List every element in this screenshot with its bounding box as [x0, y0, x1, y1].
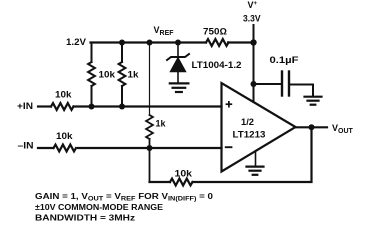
wire R3 bottom lead: [91, 86, 93, 107]
label plus input sign (drawn): [226, 101, 233, 108]
svg-text:0.1µF: 0.1µF: [270, 55, 300, 65]
ground right of capacitor: [305, 96, 322, 98]
ground under op-amp: [247, 166, 264, 168]
wire R5 bottom to -IN line and down to feedback rail: [149, 139, 151, 182]
node dot +input/R4: [119, 104, 125, 110]
wire bypass branch to capacitor: [254, 83, 283, 85]
svg-text:10k: 10k: [175, 169, 194, 179]
svg-text:BANDWIDTH = 3MHz: BANDWIDTH = 3MHz: [35, 213, 135, 222]
resistor R2 10k (-IN series): [54, 145, 76, 152]
node dot -input/R5: [147, 145, 153, 151]
svg-text:1/2: 1/2: [241, 117, 254, 127]
node dot bypass tee: [251, 81, 257, 87]
wire capacitor right plate to ground: [289, 85, 313, 97]
svg-text:1.2V: 1.2V: [66, 37, 86, 47]
resistor R1 10k (+IN series): [51, 103, 73, 110]
label minus input sign (drawn): [225, 146, 233, 148]
wire VREF bus (top rail): [91, 41, 207, 43]
node dot supply/750: [250, 39, 256, 45]
wire op-amp output: [296, 126, 328, 128]
node dot +input/R3: [89, 104, 95, 110]
wire 750 ohm right side to supply node: [228, 41, 254, 43]
zener diode D1 cathode bar with bent ends: [167, 54, 189, 60]
node dot bus/R5: [147, 40, 153, 46]
wire -IN line to op-amp minus input: [78, 147, 222, 149]
node dot bus/zener: [175, 40, 181, 46]
svg-text:1k: 1k: [156, 119, 167, 129]
wire zener cathode stem: [177, 43, 179, 57]
wire feedback rail left segment: [150, 181, 171, 183]
svg-text:–IN: –IN: [18, 141, 34, 151]
node dot bus/R4: [119, 40, 125, 46]
resistor R4 1k (VREF to +input): [119, 62, 126, 86]
svg-text:1k: 1k: [128, 70, 140, 80]
svg-text:V+: V+: [248, 0, 258, 10]
svg-text:GAIN = 1, VOUT = VREF FOR VIN(: GAIN = 1, VOUT = VREF FOR VIN(DIFF) = 0: [35, 192, 214, 203]
wire VREF bus corner down to +input line (upper part): [91, 43, 93, 63]
wire op-amp ground pin: [255, 152, 257, 167]
svg-text:±10V COMMON-MODE RANGE: ±10V COMMON-MODE RANGE: [35, 203, 164, 212]
capacitor C1 left plate: [281, 72, 283, 96]
node dot output: [309, 124, 315, 130]
wire V+ supply drop to op-amp top edge: [253, 25, 255, 102]
svg-text:10k: 10k: [99, 70, 117, 80]
svg-text:LT1213: LT1213: [233, 130, 266, 140]
wire +IN lead: [38, 105, 51, 107]
wire zener anode to ground: [177, 72, 179, 83]
op-amp U1 1/2 LT1213 triangle: [222, 83, 296, 172]
svg-text:3.3V: 3.3V: [243, 14, 261, 24]
zener diode D1 anode triangle (points up): [170, 58, 186, 72]
ground under zener: [170, 82, 189, 84]
wire R4 bottom lead: [121, 86, 123, 107]
wire -IN lead: [38, 147, 54, 149]
svg-text:+IN: +IN: [17, 101, 33, 111]
svg-text:10k: 10k: [56, 131, 74, 141]
wire R4 top lead: [121, 43, 123, 63]
svg-text:750Ω: 750Ω: [203, 27, 227, 37]
resistor R3 10k (VREF to +input): [88, 62, 95, 86]
svg-text:10k: 10k: [55, 90, 73, 100]
svg-text:LT1004-1.2: LT1004-1.2: [192, 60, 242, 70]
svg-text:VOUT: VOUT: [332, 123, 354, 135]
resistor R7 750 ohm on bus: [206, 39, 228, 46]
wire feedback rail to output node: [193, 127, 312, 182]
capacitor C1 right plate: [288, 72, 290, 96]
resistor R5 1k (VREF to minus-input): [146, 115, 153, 139]
wire +IN line to op-amp plus input: [74, 105, 222, 107]
wire VREF to R5 vertical branch (crosses +IN line): [149, 43, 151, 116]
resistor R6 10k feedback: [170, 179, 192, 186]
svg-text:VREF: VREF: [154, 25, 175, 37]
